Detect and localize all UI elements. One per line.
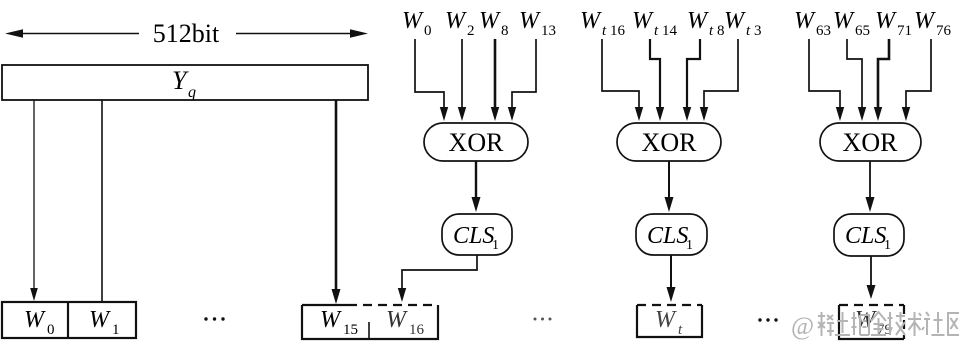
svg-text:1: 1 [492,238,499,253]
svg-text:W: W [24,307,46,333]
svg-text:1: 1 [112,322,120,338]
svg-text:W: W [89,307,111,333]
svg-text:16: 16 [610,23,626,39]
svg-text:W: W [580,8,602,34]
svg-text:14: 14 [662,23,678,39]
svg-text:512bit: 512bit [153,19,220,48]
svg-text:8: 8 [501,23,509,39]
svg-text:CLS: CLS [845,223,886,249]
svg-text:Y: Y [172,66,189,95]
svg-text:0: 0 [47,322,55,338]
svg-text:W: W [402,8,424,34]
svg-text:W: W [687,8,709,34]
svg-text:W: W [445,8,467,34]
svg-text:W: W [833,8,855,34]
svg-text:W: W [655,307,677,333]
svg-text:CLS: CLS [647,223,688,249]
svg-text:76: 76 [936,23,952,39]
svg-text:W: W [794,8,816,34]
svg-text:q: q [188,84,196,101]
svg-text:65: 65 [855,23,870,39]
svg-text:W: W [724,8,746,34]
svg-text:CLS: CLS [453,223,494,249]
svg-text:15: 15 [343,322,358,338]
svg-text:0: 0 [424,23,432,39]
svg-text:3: 3 [754,23,762,39]
svg-text:W: W [875,8,897,34]
svg-text:@: @ [791,313,814,340]
svg-text:1: 1 [884,238,891,253]
svg-text:71: 71 [897,23,912,39]
svg-text:W: W [519,8,541,34]
svg-text:63: 63 [816,23,831,39]
svg-text:W: W [632,8,654,34]
svg-text:W: W [320,307,342,333]
svg-text:XOR: XOR [843,128,899,157]
svg-text:1: 1 [686,238,693,253]
svg-text:W: W [479,8,501,34]
svg-text:2: 2 [467,23,475,39]
svg-text:13: 13 [541,23,556,39]
svg-text:16: 16 [409,322,425,338]
svg-text:W: W [386,307,408,333]
svg-text:W: W [914,8,936,34]
svg-text:XOR: XOR [642,128,698,157]
svg-text:XOR: XOR [449,128,505,157]
